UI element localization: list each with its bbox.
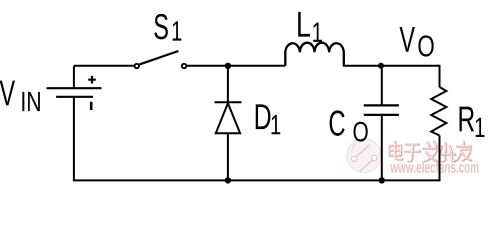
capacitor CO — [364, 105, 399, 115]
resistor R1 — [431, 87, 446, 136]
watermark logo circle — [347, 139, 381, 173]
battery bottom plate — [56, 96, 93, 98]
node: capacitor-bottom junction — [379, 177, 385, 183]
wire: switch to inductor — [187, 65, 285, 67]
char 电 — [390, 142, 403, 160]
wire: resistor bottom lead — [439, 136, 441, 181]
wire: battery top lead — [73, 66, 75, 87]
label D1 — [256, 104, 271, 129]
battery VIN — [47, 76, 102, 110]
inductor L1 — [285, 43, 344, 66]
watermark text 电子发烧友 (approximated strokes) — [390, 142, 472, 162]
battery plus sign — [88, 76, 96, 84]
wire: inductor to output corner — [343, 65, 440, 67]
switch S1 — [135, 51, 187, 68]
char 发 — [424, 142, 439, 162]
wire: capacitor bottom lead — [381, 116, 383, 180]
diode D1 triangle — [216, 103, 240, 133]
wire: resistor top lead — [439, 65, 441, 87]
wire: top rail to switch — [74, 65, 134, 67]
switch S1 left terminal — [135, 64, 139, 68]
wire: capacitor top lead — [381, 66, 383, 105]
char 友 — [457, 142, 472, 161]
battery top plate — [47, 87, 102, 89]
node: switch-diode junction — [225, 63, 231, 69]
node VO label — [400, 27, 415, 52]
diode D1 cathode bar — [215, 101, 242, 103]
wire: bottom rail — [73, 179, 441, 181]
watermark text www.elecfans.com — [390, 161, 478, 173]
node: output junction — [378, 63, 384, 69]
node: diode-bottom junction — [225, 177, 231, 183]
label S1 — [154, 14, 167, 39]
label L1 — [298, 12, 310, 37]
label R1 — [460, 107, 475, 132]
char 烧 — [440, 144, 455, 162]
diode D1 — [215, 102, 242, 133]
switch S1 blade — [140, 51, 179, 64]
wire: diode branch vertical — [227, 66, 229, 181]
switch S1 right terminal — [182, 64, 186, 68]
node VIN label — [0, 81, 15, 106]
battery minus mark — [90, 102, 93, 110]
watermark 电子发烧友 white emboss highlight — [389, 141, 471, 161]
label CO — [330, 110, 345, 135]
wire: battery bottom lead — [73, 97, 75, 181]
char 子 — [406, 145, 421, 162]
